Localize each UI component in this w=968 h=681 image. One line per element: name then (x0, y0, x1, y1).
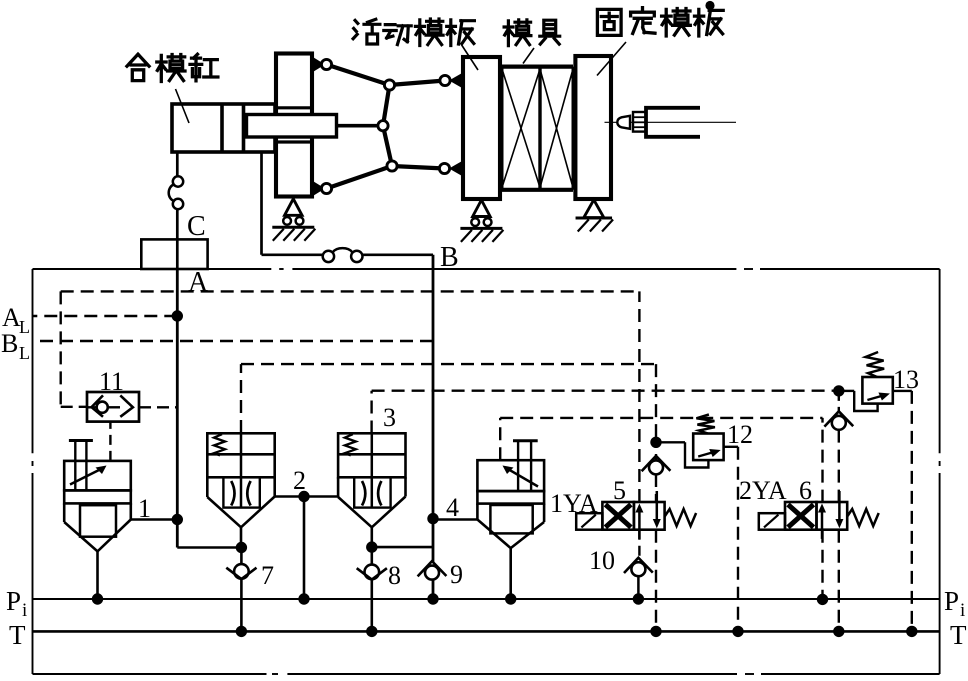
svg-text:12: 12 (727, 420, 753, 449)
svg-text:B: B (1, 329, 18, 358)
svg-text:P: P (944, 586, 959, 616)
svg-text:i: i (22, 600, 27, 621)
svg-text:L: L (19, 343, 30, 363)
svg-text:2YA: 2YA (739, 476, 787, 505)
svg-text:C: C (187, 211, 206, 242)
svg-text:A: A (188, 267, 209, 298)
svg-text:T: T (950, 620, 967, 650)
svg-text:8: 8 (388, 561, 401, 590)
svg-text:P: P (6, 586, 21, 616)
svg-text:9: 9 (450, 560, 463, 589)
svg-text:2: 2 (293, 466, 306, 495)
svg-text:13: 13 (893, 365, 919, 394)
svg-text:1: 1 (138, 494, 151, 523)
svg-text:5: 5 (613, 476, 626, 505)
svg-text:L: L (19, 317, 30, 337)
svg-text:T: T (9, 620, 26, 650)
svg-text:3: 3 (383, 403, 396, 432)
svg-text:6: 6 (799, 476, 812, 505)
svg-text:1YA: 1YA (550, 489, 598, 518)
svg-text:7: 7 (261, 561, 274, 590)
svg-text:i: i (960, 600, 965, 621)
svg-text:10: 10 (589, 546, 615, 575)
svg-text:4: 4 (446, 493, 459, 522)
svg-text:11: 11 (99, 367, 124, 396)
